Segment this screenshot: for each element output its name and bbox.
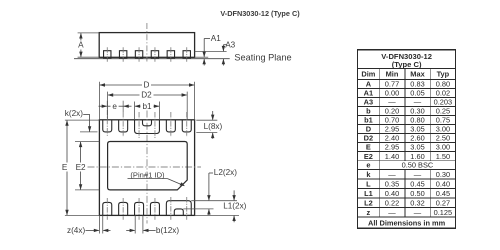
bottom wide pin notch [174,209,183,216]
svg-text:z(4x): z(4x) [67,226,85,235]
svg-text:k: k [366,170,371,179]
bottom pin 3 center line [138,198,140,220]
dim A3 leader and arrows [223,44,226,46]
svg-text:1.60: 1.60 [410,152,424,161]
svg-text:3.05: 3.05 [410,143,424,152]
svg-text:D: D [144,81,150,90]
top wide pin notch [143,120,152,126]
svg-text:L1: L1 [364,189,373,198]
svg-text:A3: A3 [225,40,235,49]
bottom pin 1 center line [106,198,108,220]
svg-text:L2(2x): L2(2x) [214,168,237,177]
svg-text:0.45: 0.45 [410,179,424,188]
bottom row pin 2 [119,202,128,215]
lead top extension for A3 [195,51,227,53]
svg-text:0.20: 0.20 [385,107,399,116]
pin square 1 (side view) [104,51,111,59]
svg-text:—: — [388,98,396,107]
svg-text:L: L [366,179,371,188]
svg-text:A3: A3 [364,98,373,107]
top pin 5 center line [170,112,172,137]
svg-text:0.83: 0.83 [410,80,424,89]
svg-text:V-DFN3030-12 (Type C): V-DFN3030-12 (Type C) [220,9,300,18]
side view center line [146,23,148,62]
svg-text:0.70: 0.70 [385,116,399,125]
svg-text:0.203: 0.203 [434,98,453,107]
dim z leader with arrows [86,229,99,231]
svg-text:2.40: 2.40 [385,134,399,143]
svg-text:All Dimensions in mm: All Dimensions in mm [368,218,446,227]
table grid lines [358,69,456,218]
svg-text:e: e [366,161,370,170]
svg-text:A: A [78,41,84,50]
svg-text:E2: E2 [364,152,373,161]
dim L arrows [212,111,214,120]
dim D2 line with arrows [108,94,139,96]
svg-text:0.80: 0.80 [436,80,450,89]
svg-text:b1: b1 [364,116,373,125]
svg-text:0.50 BSC: 0.50 BSC [402,161,434,170]
svg-text:Min: Min [386,70,399,79]
dim L2 leader and arrows [209,172,213,174]
svg-text:b(12x): b(12x) [156,226,179,235]
svg-text:2.50: 2.50 [436,134,450,143]
pin square 6 (side view) [183,51,190,59]
svg-text:k(2x): k(2x) [65,109,83,118]
dim D extension lines [98,82,100,120]
pin 2 center line [122,47,124,62]
svg-text:L2: L2 [364,198,373,207]
dim b1 extension lines [134,102,136,120]
bottom row pin 1 [103,202,112,215]
svg-text:1.40: 1.40 [385,152,399,161]
dim A extension lines [78,32,100,34]
svg-text:0.30: 0.30 [410,107,424,116]
svg-text:A: A [366,80,372,89]
pin 3 center line [138,47,140,62]
horizontal center line [88,166,202,168]
svg-text:(Type C): (Type C) [392,60,422,69]
svg-text:0.00: 0.00 [385,89,399,98]
dim k leader with arrow [83,113,89,115]
svg-text:0.22: 0.22 [385,198,399,207]
dim A arrow line [80,33,82,40]
svg-text:A1: A1 [364,89,373,98]
bottom row pin 4 [150,202,159,215]
top pin 1 center line [106,101,108,137]
svg-text:0.40: 0.40 [385,189,399,198]
package outline (bottom view) [99,120,194,216]
svg-text:3.00: 3.00 [436,125,450,134]
svg-text:b: b [366,107,371,116]
svg-text:0.80: 0.80 [410,116,424,125]
package body outline (side view) [99,33,194,58]
pin 4 center line [154,47,156,62]
svg-text:0.50: 0.50 [410,189,424,198]
bottom wide pin (L1) [166,201,191,216]
dim L2 reference lines [191,200,237,202]
bottom row pin 3 [135,202,144,215]
svg-text:0.05: 0.05 [410,89,424,98]
svg-text:(Pin#1 ID): (Pin#1 ID) [130,170,165,179]
top pin 4 center line [154,112,156,138]
dim E line with arrows [66,121,68,163]
top row pin 1 [103,120,112,132]
svg-text:Max: Max [410,70,425,79]
package bottom edge extended right [195,214,239,216]
dimension table [358,50,456,229]
svg-text:z: z [367,208,371,217]
top pin 6 center line [186,112,188,137]
svg-text:0.45: 0.45 [436,189,450,198]
svg-text:E: E [366,143,371,152]
pin square 5 (side view) [167,51,174,59]
top wide pin (b1) [135,120,160,134]
svg-text:b1: b1 [142,102,152,111]
svg-text:0.125: 0.125 [434,208,453,217]
table outer border [358,50,456,229]
svg-text:e: e [112,102,117,111]
body bottom extension for A1 [195,56,209,58]
dim D line with arrows [100,84,142,86]
svg-text:L(8x): L(8x) [204,122,223,131]
vertical center line [146,111,148,224]
dim b extension lines [134,215,136,233]
bottom pin 4 center line [154,198,156,220]
svg-text:—: — [414,98,422,107]
svg-text:2.60: 2.60 [410,134,424,143]
svg-text:0.77: 0.77 [385,80,399,89]
top row pin 6 [182,120,191,132]
top row pin 2 [119,120,128,132]
svg-text:—: — [414,208,422,217]
svg-text:D2: D2 [141,91,152,100]
svg-text:E: E [62,163,68,172]
dim E extension lines [65,119,100,121]
exposed pad with pin1 chamfer [108,142,188,190]
dim k reference line [80,131,98,133]
pin square 2 (side view) [119,51,126,59]
pin 5 center line [170,47,172,62]
svg-text:—: — [414,170,422,179]
svg-text:0.40: 0.40 [436,179,450,188]
dim A1 leader and arrows [204,38,210,40]
dim E2 extension lines [75,141,99,143]
svg-text:2.95: 2.95 [385,143,399,152]
svg-text:0.35: 0.35 [385,179,399,188]
dim b leader with arrows [126,229,135,231]
dim e line with outside arrows [99,105,111,107]
svg-text:D2: D2 [364,134,373,143]
svg-text:Typ: Typ [437,70,450,79]
svg-text:3.05: 3.05 [410,125,424,134]
bottom pin 5 center line [170,197,172,220]
pin 1 center line [106,47,108,62]
dim L1 arrows [233,190,235,200]
seating plane line [74,58,230,60]
svg-text:0.30: 0.30 [436,170,450,179]
svg-text:0.25: 0.25 [436,107,450,116]
top pin 3 center line [138,112,140,138]
top row pin 5 [166,120,175,132]
svg-text:0.02: 0.02 [436,89,450,98]
dim E2 line with arrows [80,142,82,163]
svg-text:Seating Plane: Seating Plane [234,52,291,62]
svg-text:0.75: 0.75 [436,116,450,125]
dim z extension lines [98,215,100,233]
dim D2 extension lines [107,92,109,120]
svg-text:D: D [366,125,372,134]
pin square 3 (side view) [135,51,142,59]
pin square 4 (side view) [151,51,158,59]
dim L extension lines [196,119,217,121]
svg-text:—: — [388,170,396,179]
svg-text:1.50: 1.50 [436,152,450,161]
svg-text:0.27: 0.27 [436,198,450,207]
svg-text:Dim: Dim [361,70,375,79]
svg-text:L1(2x): L1(2x) [223,202,246,211]
pin 6 center line [186,47,188,62]
bottom pin 6 center line [186,197,188,220]
svg-text:A1: A1 [211,34,221,43]
dim b1 line with arrows [135,105,141,107]
top pin 2 center line [122,101,124,112]
svg-text:0.32: 0.32 [410,198,424,207]
svg-text:3.00: 3.00 [436,143,450,152]
svg-text:E2: E2 [76,163,86,172]
svg-text:2.95: 2.95 [385,125,399,134]
svg-text:—: — [388,208,396,217]
bottom pin 2 center line [122,198,124,220]
